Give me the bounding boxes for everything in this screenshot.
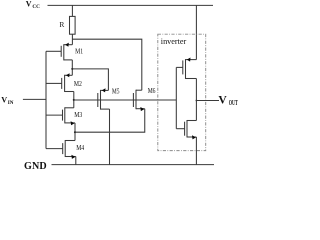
transistor M1 xyxy=(46,43,72,61)
wire VOUT lead xyxy=(196,100,219,102)
svg-text:M1: M1 xyxy=(75,48,83,56)
svg-text:GND: GND xyxy=(24,161,47,172)
wire GND bottom rail xyxy=(52,164,215,166)
wire M2 source to M3 drain xyxy=(73,92,75,108)
transistor M2 xyxy=(46,73,74,92)
node C junction dot xyxy=(73,99,75,101)
svg-text:M6: M6 xyxy=(148,87,156,95)
svg-text:M5: M5 xyxy=(112,88,120,96)
wire inverter gate bus xyxy=(175,67,177,128)
wire M1 source to M2 drain xyxy=(71,60,73,75)
node VOUT label xyxy=(218,93,238,107)
transistor M3 xyxy=(46,107,75,125)
svg-text:CC: CC xyxy=(32,4,40,10)
wire inverter lower source to ground xyxy=(195,137,197,165)
node VCC label xyxy=(26,0,40,10)
svg-text:V: V xyxy=(218,93,227,106)
svg-text:V: V xyxy=(1,96,7,105)
wire VCC branch to inverter xyxy=(195,5,197,59)
wire node D to M6 source xyxy=(75,109,145,133)
wire M4 source to ground xyxy=(75,157,77,165)
svg-text:V: V xyxy=(26,0,32,9)
wire left gate bus xyxy=(45,51,47,148)
wire M5 source to ground xyxy=(109,109,111,165)
node B junction dot xyxy=(71,68,73,70)
svg-text:M4: M4 xyxy=(76,144,84,152)
node VOUT junction dot xyxy=(196,100,198,102)
transistor M5 xyxy=(98,88,110,109)
wire inverter output node xyxy=(195,79,197,121)
svg-text:M3: M3 xyxy=(74,111,82,119)
node D junction dot xyxy=(74,131,76,133)
wire top node to M6 drain xyxy=(72,39,141,90)
transistor M6 xyxy=(133,90,144,111)
wire VCC top rail xyxy=(48,4,214,6)
inverter dashed box xyxy=(158,34,206,150)
wire gate line to M5 M6 and inverter xyxy=(74,99,177,101)
wire M3 source to M4 drain xyxy=(74,123,76,141)
transistor M4 xyxy=(46,140,76,159)
transistor U2 inverter lower xyxy=(176,120,196,139)
svg-text:OUT: OUT xyxy=(229,99,238,107)
svg-text:M2: M2 xyxy=(74,80,82,88)
wire node B to M5 drain xyxy=(72,69,108,91)
svg-text:inverter: inverter xyxy=(161,37,187,46)
wire VIN lead xyxy=(23,98,46,100)
wire resistor bottom lead xyxy=(71,34,73,45)
svg-text:IN: IN xyxy=(8,100,14,106)
resistor R xyxy=(70,16,76,34)
transistor U1 inverter upper xyxy=(176,58,196,80)
node VIN label xyxy=(1,96,13,106)
wire resistor top lead xyxy=(71,5,73,16)
